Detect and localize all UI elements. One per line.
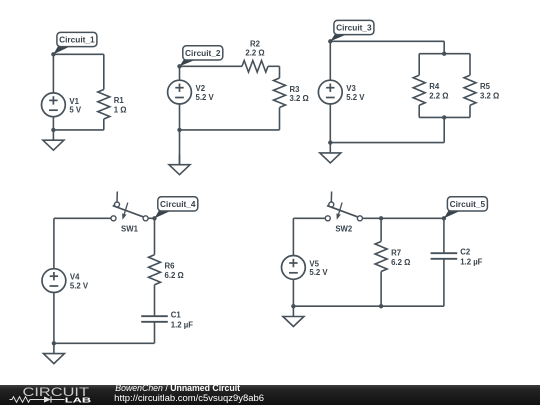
wire [179,104,181,130]
wire [53,53,103,55]
footer bar [0,385,540,405]
wire [292,279,294,306]
svg-text:1.2 µF: 1.2 µF [460,258,482,267]
wire [268,65,280,67]
svg-text:R4: R4 [429,82,440,91]
ground [43,343,64,363]
wire [443,117,445,142]
node label Circuit_3 [330,20,374,41]
svg-text:LAB: LAB [65,395,92,404]
junction node 3 parallel bottom [442,115,446,119]
junction node 5 V5 bottom [291,304,295,308]
svg-text:R5: R5 [480,82,491,91]
ground [169,154,190,174]
wire [53,293,55,344]
junction node 5 R7 top [379,216,383,220]
node label Circuit_2 [180,46,223,67]
resistor R3 [274,78,309,108]
wire [279,108,281,130]
capacitor C1 [141,311,193,330]
svg-text:1 Ω: 1 Ω [114,106,127,115]
resistor R1 [98,90,127,120]
wire [180,65,243,67]
svg-text:V2: V2 [196,84,206,93]
svg-text:C1: C1 [171,311,182,320]
wire [154,322,156,344]
wire [180,129,280,131]
wire [293,305,444,307]
switch SW2 [325,192,362,234]
wire [154,285,156,317]
resistor R6 [149,255,184,285]
wire [53,218,55,268]
svg-text:V5: V5 [309,259,319,268]
wire [419,116,470,118]
wire [279,66,281,78]
svg-text:Circuit_3: Circuit_3 [336,23,372,33]
junction node 5 R7 bottom [379,304,383,308]
wire [329,104,331,143]
switch SW1 [111,192,148,234]
voltage source V5 [282,256,329,280]
resistor R4 [413,75,448,105]
svg-text:3.2 Ω: 3.2 Ω [290,94,309,103]
svg-text:5.2 V: 5.2 V [309,268,328,277]
wire [443,259,445,306]
capacitor C2 [431,248,483,267]
junction node 4 top [152,216,156,220]
resistor R7 [375,242,410,272]
svg-text:3.2 Ω: 3.2 Ω [480,92,499,101]
svg-text:SW1: SW1 [121,225,139,234]
junction node 2 bottom [177,128,181,132]
wire [179,130,181,165]
svg-text:2.2 Ω: 2.2 Ω [429,92,448,101]
junction node 1 top [51,52,55,56]
svg-text:6.2 Ω: 6.2 Ω [391,258,410,267]
wire [469,105,471,117]
circuit 1 [42,32,127,150]
resistor R2 [242,39,268,72]
ground [43,130,64,150]
ground [320,143,341,163]
wire [54,342,155,344]
junction node 1 bottom [51,128,55,132]
wire [443,218,445,253]
svg-text:5.2 V: 5.2 V [196,93,215,102]
svg-text:6.2 Ω: 6.2 Ω [165,271,184,280]
junction node 3 parallel top [442,52,446,56]
svg-text:Circuit_1: Circuit_1 [59,35,95,45]
wire [54,217,111,219]
svg-text:1.2 µF: 1.2 µF [171,321,193,330]
svg-text:R6: R6 [165,262,176,271]
svg-text:V1: V1 [69,97,79,106]
svg-text:Circuit_5: Circuit_5 [450,199,486,209]
wire [52,54,54,93]
wire [154,218,156,254]
CircuitLab logo [10,385,93,404]
voltage source V2 [168,80,215,104]
wire [418,105,420,117]
svg-text:R7: R7 [391,249,401,258]
wire [330,142,444,144]
circuit 5 [282,192,488,327]
ground [283,306,304,326]
svg-text:V4: V4 [70,273,80,282]
circuit 2 [168,39,309,174]
junction node 3 top [328,39,332,43]
wire [469,54,471,75]
svg-text:R3: R3 [290,85,301,94]
wire [293,217,325,219]
wire [103,54,105,89]
wire [53,129,103,131]
wire [330,40,444,42]
wire [419,53,470,55]
voltage source V3 [318,80,365,104]
wire [380,272,382,307]
wire [329,41,331,80]
wire [52,117,54,130]
node label Circuit_1 [53,32,97,54]
svg-text:5.2 V: 5.2 V [346,93,365,102]
wire [292,218,294,255]
resistor R5 [464,75,499,105]
wire [380,218,382,241]
svg-text:2.2 Ω: 2.2 Ω [245,49,264,58]
wire [179,66,181,80]
wire [362,217,444,219]
svg-text:5.2 V: 5.2 V [70,281,89,290]
junction node 2 top [177,64,181,68]
wire [148,217,154,219]
circuit 4 [42,192,198,364]
circuit 3 [318,20,499,163]
svg-text:Circuit_4: Circuit_4 [160,199,196,209]
svg-text:BowenChen / Unnamed Circuit: BowenChen / Unnamed Circuit [115,383,240,393]
svg-text:C2: C2 [460,248,471,257]
svg-text:R2: R2 [250,39,261,48]
node label Circuit_4 [155,197,198,219]
svg-text:SW2: SW2 [335,225,353,234]
junction node 3 bottom [328,140,332,144]
wire [418,54,420,75]
voltage source V4 [42,269,89,293]
junction node 4 bottom [52,341,56,345]
svg-text:R1: R1 [114,96,125,105]
svg-text:V3: V3 [346,84,356,93]
wire [103,119,105,130]
svg-text:Circuit_2: Circuit_2 [185,48,221,58]
svg-text:5 V: 5 V [69,106,82,115]
junction node 5 C2 top [442,216,446,220]
svg-text:http://circuitlab.com/c5vsuqz9: http://circuitlab.com/c5vsuqz9y8ab6 [114,393,264,403]
wire [443,41,445,53]
voltage source V1 [42,93,82,117]
node label Circuit_5 [444,197,488,219]
